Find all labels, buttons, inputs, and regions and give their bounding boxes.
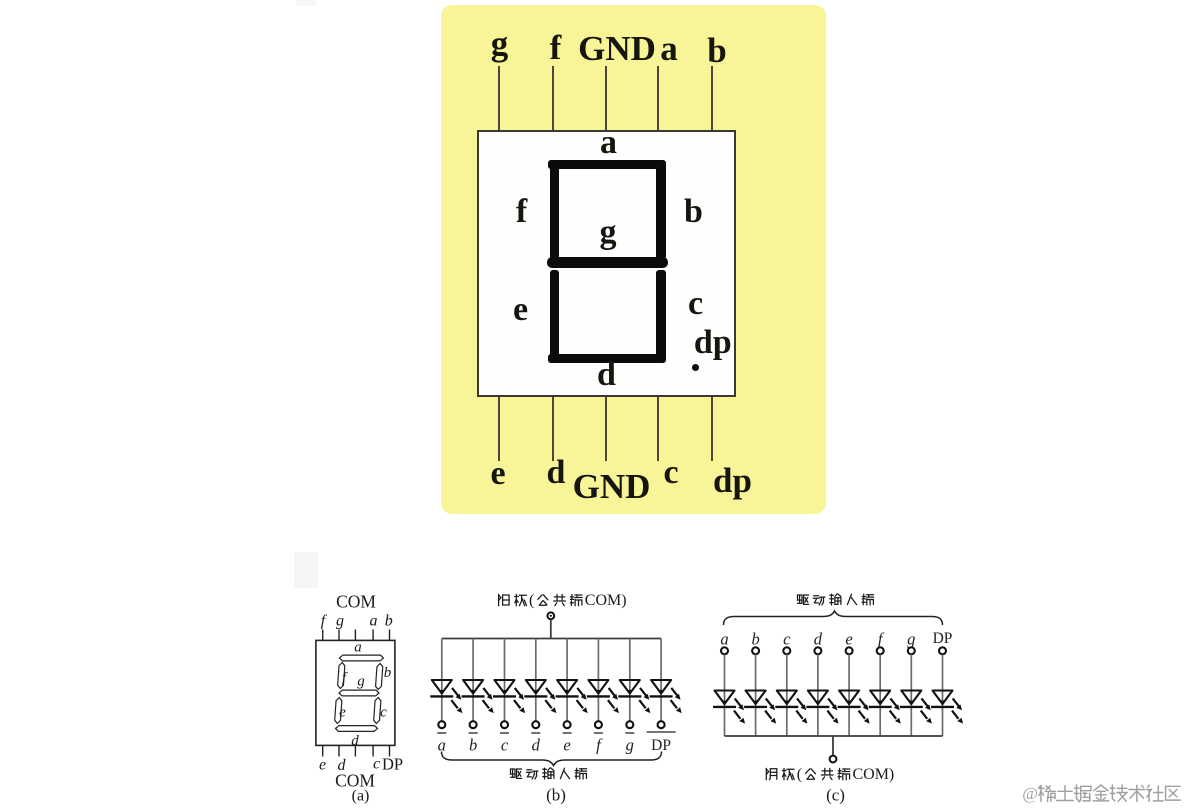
svg-text:COM: COM — [336, 592, 376, 612]
svg-text:g: g — [357, 674, 365, 690]
svg-text:b: b — [469, 736, 477, 755]
svg-text:b: b — [385, 613, 393, 630]
svg-text:b: b — [751, 630, 759, 649]
svg-text:e: e — [339, 705, 346, 721]
svg-text:DP: DP — [933, 630, 953, 647]
svg-text:c: c — [380, 705, 387, 721]
svg-text:e: e — [845, 630, 852, 649]
svg-text:a: a — [720, 630, 728, 649]
svg-text:(: ( — [797, 766, 802, 783]
svg-text:(c): (c) — [826, 786, 845, 805]
svg-text:c: c — [501, 736, 509, 755]
svg-text:DP: DP — [651, 737, 671, 754]
svg-text:): ) — [889, 766, 894, 783]
svg-text:(b): (b) — [546, 786, 566, 805]
svg-text:DP: DP — [382, 755, 403, 774]
svg-text:COM: COM — [585, 592, 621, 609]
svg-text:g: g — [626, 736, 634, 755]
svg-text:f: f — [878, 630, 885, 649]
svg-text:a: a — [370, 613, 378, 630]
svg-text:e: e — [319, 757, 326, 774]
svg-text:b: b — [384, 665, 392, 681]
svg-text:f: f — [342, 671, 348, 687]
svg-text:d: d — [351, 733, 359, 749]
svg-text:d: d — [532, 736, 541, 755]
svg-text:f: f — [321, 613, 328, 630]
svg-text:c: c — [783, 630, 791, 649]
svg-text:a: a — [354, 640, 362, 656]
svg-text:COM: COM — [853, 766, 889, 783]
svg-text:f: f — [596, 736, 603, 755]
svg-text:(: ( — [529, 592, 534, 609]
svg-text:@: @ — [1022, 784, 1038, 803]
svg-text:g: g — [336, 613, 344, 630]
svg-text:g: g — [907, 630, 915, 649]
svg-text:): ) — [621, 592, 626, 609]
svg-text:d: d — [814, 630, 823, 649]
svg-text:e: e — [563, 736, 570, 755]
svg-text:(a): (a) — [352, 788, 370, 805]
